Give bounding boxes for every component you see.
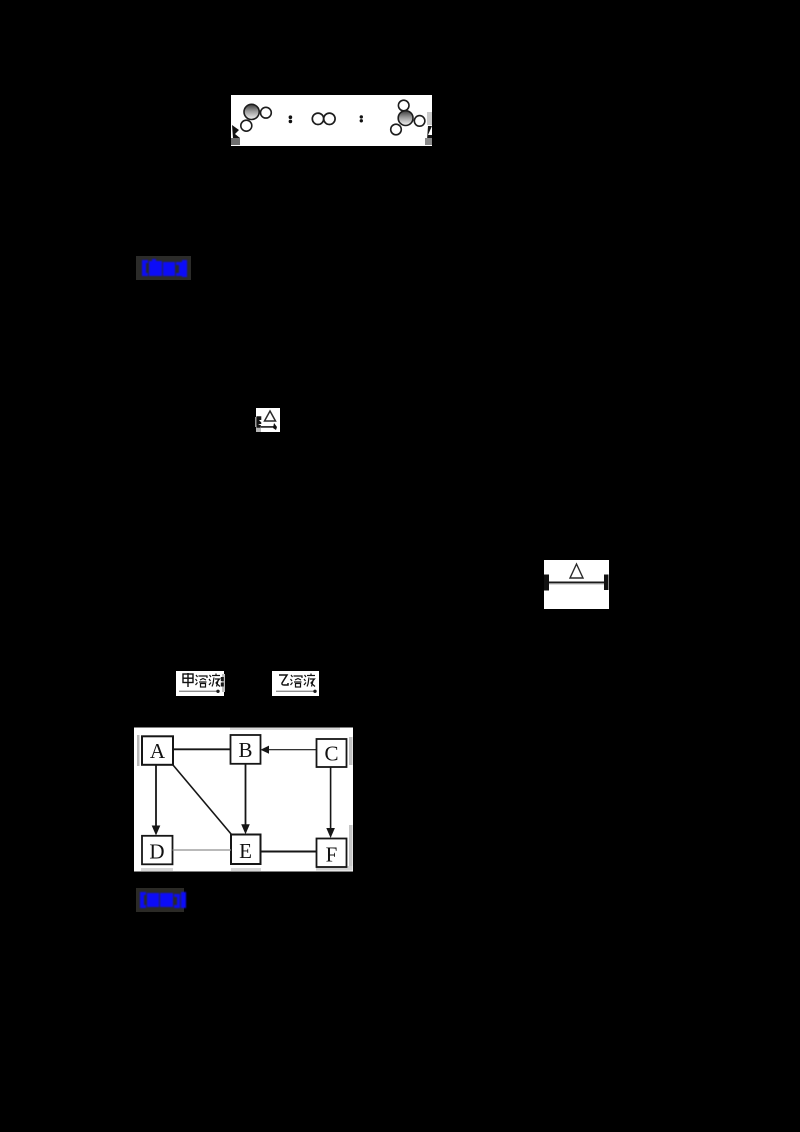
highlight box behind first answer label <box>136 256 191 280</box>
clipped black text right edge <box>604 575 609 591</box>
molecule 3 H atom top <box>398 100 409 111</box>
yi solution label image (乙溶液 over arrow) <box>272 671 320 696</box>
glyph 乙 <box>279 675 288 685</box>
small heating symbol image (delta over arrow) <box>255 407 281 433</box>
arrow A down to D <box>155 765 157 827</box>
gray edge slivers <box>137 735 140 766</box>
box D <box>142 836 173 865</box>
svg-text:A: A <box>150 739 166 763</box>
svg-text:F: F <box>326 843 338 867</box>
clipped coefficient text left <box>257 416 262 428</box>
arrow C down to F <box>330 767 332 829</box>
blue label 1 (answer marker) <box>139 258 195 279</box>
svg-text:D: D <box>149 840 164 864</box>
glyph 溶 <box>196 675 208 687</box>
delta (heat) <box>570 564 583 578</box>
arrowhead <box>273 423 277 430</box>
white background <box>256 408 280 432</box>
molecule 1 H atom lower-left <box>241 120 252 131</box>
white background of flowchart <box>134 728 353 872</box>
molecule 2 (O2) left atom <box>312 113 323 124</box>
arrow line under delta <box>261 426 276 428</box>
clipped black text left edge <box>544 575 549 591</box>
clipped black text fragment bottom-left corner <box>232 125 240 138</box>
glyph 溶 <box>291 675 303 687</box>
jia solution label image (甲溶液 over arrow) <box>176 671 225 696</box>
diagonal wire A to E <box>173 765 232 835</box>
clipped text fragment right edge of jia <box>221 677 224 681</box>
delta (heat) <box>265 411 276 421</box>
wire C to B with arrowhead at B <box>267 749 317 751</box>
molecule 1 H atom right <box>261 107 272 118</box>
svg-text:B: B <box>238 738 252 762</box>
molecule 3 H atom lower-left <box>391 124 402 135</box>
white background of molecule image <box>231 95 432 146</box>
box A <box>142 736 173 765</box>
wire D to E (thin gray) <box>173 849 232 851</box>
box C <box>317 739 347 767</box>
molecule ratio diagram image (white inset) <box>231 94 432 147</box>
highlight box behind second answer label <box>136 888 184 912</box>
wire A to B <box>173 748 231 750</box>
svg-text:C: C <box>324 742 338 766</box>
arrow B down to E <box>245 764 247 826</box>
flowchart image A-F <box>134 727 353 872</box>
colon 2 <box>360 115 363 118</box>
white background <box>544 560 609 609</box>
svg-text:E: E <box>239 839 252 863</box>
large heating symbol image (delta over line) <box>544 559 609 609</box>
reaction line <box>546 582 607 584</box>
box E <box>231 835 261 865</box>
clipped black text fragment right edge <box>427 112 432 125</box>
glyph 液 <box>209 674 220 687</box>
box F <box>317 839 347 868</box>
box B <box>231 735 261 764</box>
colon 1 <box>289 115 293 119</box>
molecule 2 (O2) right atom <box>324 113 335 124</box>
molecule 1 (H2O): O atom shaded sphere <box>244 104 259 119</box>
molecule 3 H atom right <box>414 116 425 127</box>
molecule 3 (NH3): N atom shaded sphere <box>398 111 413 126</box>
glyph 液 <box>304 674 315 687</box>
glyph 甲 <box>183 673 193 687</box>
arrow under 甲溶液 <box>179 691 218 692</box>
wire E to F <box>261 851 317 853</box>
arrow under 乙溶液 <box>276 691 315 692</box>
gray shading lower-left <box>256 425 261 432</box>
blue label 2 (answer marker) <box>139 891 189 910</box>
